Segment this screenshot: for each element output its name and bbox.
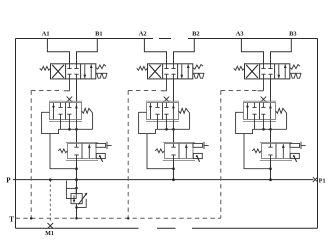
node T: tank return line (dashed)	[16, 217, 219, 219]
wire: top work-port rail	[16, 38, 154, 40]
svg-text:B2: B2	[192, 30, 199, 37]
wire: V12 lower interconnect	[61, 120, 77, 130]
valve V32 right cell flow arrow	[269, 103, 271, 119]
wire: feed line V21 to V22	[173, 79, 175, 103]
spring left of valve V33	[252, 149, 261, 153]
valve V23 right cell flow arrow	[185, 144, 187, 158]
wire: dashed section top edge 2	[128, 90, 159, 92]
wire: V11 A-side stub to section boundary	[64, 79, 70, 91]
pilot line left of valve V12	[42, 112, 59, 133]
junction relief outlet	[75, 206, 78, 209]
valve V22 left cell blocked ports	[155, 103, 159, 108]
valve V33 left cell blocked ports	[268, 144, 272, 148]
relief valve RV1 drain loop	[77, 199, 87, 208]
wire: feed line V12 to V13	[76, 129, 78, 143]
junction below V12 left	[68, 128, 71, 131]
junction relief inlet	[75, 187, 78, 190]
arrow into drain block V23	[197, 155, 200, 161]
compensator valve V12 body	[49, 100, 82, 102]
valve V13 left cell blocked ports	[74, 144, 78, 148]
drain port block right of V33	[290, 153, 299, 158]
wire: B2 drop to valve V21	[174, 39, 195, 64]
wire: B3 drop to valve V31	[271, 39, 292, 64]
wire: feed line V33 to P rail	[270, 159, 272, 180]
wire: dashed section top edge 3	[221, 90, 257, 92]
junction feed on P line	[269, 178, 272, 181]
valve V31 right position flow arrows	[278, 64, 280, 78]
valve V12 right cell flow arrow	[75, 103, 77, 119]
plugged pilot port x on valve V12	[67, 97, 73, 102]
svg-text:A2: A2	[139, 30, 147, 37]
plugged pilot port x on valve V32	[261, 97, 267, 102]
svg-text:M1: M1	[45, 231, 54, 237]
arrow into drain block V13	[100, 155, 103, 161]
valve V22 left cell check arrow	[150, 103, 152, 119]
directional valve V21 body	[148, 64, 193, 79]
spring right of valve V12	[82, 108, 91, 113]
svg-text:P: P	[6, 176, 11, 184]
valve V11 left position crossed arrows	[52, 65, 64, 78]
detent on valve V11	[96, 72, 108, 74]
junction relief on T line	[75, 217, 78, 220]
node P1: port marker x	[313, 177, 318, 182]
detent on valve V31	[290, 72, 302, 74]
valve V31 left position crossed arrows	[246, 65, 258, 78]
wire: V22 lower interconnect	[158, 120, 174, 130]
valve V22 right cell flow arrow	[172, 103, 174, 119]
wire: bottom border line	[16, 227, 139, 229]
svg-text:A3: A3	[236, 30, 244, 37]
wire: B1 drop to valve V11	[77, 39, 98, 64]
relief valve RV1 inlet from P	[76, 180, 78, 194]
wire: V21 A-side stub to section boundary	[161, 79, 167, 91]
spring left of valve V13	[58, 149, 67, 153]
valve V12 left cell check arrow	[53, 103, 55, 119]
wire: A3 drop to valve V31	[241, 39, 263, 64]
pilot loop to feed line below	[244, 134, 271, 169]
wire: V31 A-side stub to section boundary	[258, 79, 264, 91]
junction feed/pilot loop	[172, 167, 175, 170]
wire: dashed section top edge 1	[31, 90, 62, 92]
junction below V32 right	[269, 128, 272, 131]
wire: feed line V31 to V32	[270, 79, 272, 103]
wire: right border line	[317, 39, 319, 229]
relief valve RV1 pilot line to P	[65, 181, 67, 189]
spring right of valve V31	[290, 65, 300, 70]
relief valve RV1 adjustment arrow	[78, 193, 87, 204]
valve V33 right cell flow arrow	[282, 144, 284, 158]
directional valve V11 body	[51, 64, 96, 79]
junction below V12 right	[75, 128, 78, 131]
junction feed/pilot loop	[75, 167, 78, 170]
pilot line left of valve V22	[139, 112, 156, 133]
wire: A2 drop to valve V21	[144, 39, 166, 64]
valve V21 centre position blocked ports	[164, 64, 168, 69]
node M1: gauge port marker x	[48, 223, 54, 229]
svg-text:B3: B3	[289, 30, 296, 37]
pilot loop to feed line below	[50, 134, 77, 169]
valve V31 centre position blocked ports	[261, 64, 265, 69]
valve V32 left cell blocked ports	[252, 103, 256, 108]
svg-text:T: T	[9, 216, 14, 224]
spring right of valve V32	[276, 108, 285, 113]
plugged pilot port x on valve V22	[164, 97, 170, 102]
pilot port block right of V23	[193, 143, 203, 147]
valve V23 left cell blocked ports	[171, 144, 175, 148]
spring right of valve V22	[179, 108, 188, 113]
drain port block right of V23	[193, 153, 202, 158]
compensator valve V32 body	[243, 100, 276, 102]
spring right of valve V21	[193, 65, 203, 70]
wire: feed line V11 to V12	[76, 79, 78, 103]
valve V11 centre position blocked ports	[67, 64, 71, 69]
wire: feed line V23 to P rail	[173, 159, 175, 180]
svg-text:B1: B1	[95, 30, 102, 37]
wire: dashed section boundary vertical 1	[30, 91, 32, 219]
relief valve RV1 internal arrow	[73, 195, 75, 202]
svg-text:A1: A1	[42, 30, 50, 37]
arrow into drain block V33	[294, 155, 297, 161]
valve V13 right cell flow arrow	[88, 144, 90, 158]
junction feed on P line	[172, 178, 175, 181]
drain port block right of V13	[96, 153, 105, 158]
junction feed/pilot loop	[269, 167, 272, 170]
relief valve RV1 pilot square	[66, 188, 76, 198]
valve V11 right position flow arrows	[84, 64, 86, 78]
wire: feed line V32 to V33	[270, 129, 272, 143]
directional valve V31 body	[245, 64, 290, 79]
junction below V22 left	[165, 128, 168, 131]
junction feed on P line	[75, 178, 78, 181]
spring left of valve V21	[137, 66, 148, 70]
junction P line / gauge line	[49, 178, 52, 181]
valve V22 right cell blocked ports	[164, 103, 168, 108]
valve V21 left position crossed arrows	[149, 65, 161, 78]
compensator valve V22 body	[146, 100, 179, 102]
pilot line left of valve V32	[236, 112, 253, 133]
valve V32 right cell blocked ports	[261, 103, 265, 108]
relief valve RV1 outlet to T	[76, 204, 78, 219]
detent on valve V21	[193, 72, 205, 74]
pilot port block right of V33	[290, 143, 300, 147]
wire: dashed section boundary, right riser to T	[218, 91, 221, 219]
wire: dashed gauge line P to M1	[49, 180, 51, 223]
compensator valve V33 body	[260, 141, 292, 143]
spring left of valve V31	[234, 66, 245, 70]
wire: A1 drop to valve V11	[47, 39, 69, 64]
valve V12 left cell blocked ports	[58, 103, 62, 108]
wire: dashed section boundary vertical 2	[127, 91, 129, 219]
pilot port block right of V13	[96, 143, 106, 147]
spring left of valve V11	[40, 66, 51, 70]
valve V32 left cell check arrow	[247, 103, 249, 119]
compensator valve V13 body	[66, 141, 98, 143]
valve V12 right cell blocked ports	[67, 103, 71, 108]
pilot loop to feed line below	[147, 134, 174, 169]
wire: feed line V22 to V23	[173, 129, 175, 143]
junction on T line at second boundary	[127, 217, 130, 220]
wire: left border line	[15, 39, 17, 229]
wire: V32 lower interconnect	[255, 120, 271, 130]
node P: pressure supply line	[13, 179, 313, 181]
relief valve RV1 main square	[71, 194, 82, 204]
spring left of valve V23	[155, 149, 164, 153]
junction on T line at left boundary	[30, 217, 33, 220]
junction below V32 left	[262, 128, 265, 131]
svg-text:P1: P1	[319, 179, 326, 185]
valve V21 right position flow arrows	[181, 64, 183, 78]
spring right of valve V11	[96, 65, 106, 70]
junction below V22 right	[172, 128, 175, 131]
compensator valve V23 body	[163, 141, 195, 143]
wire: feed line V13 to P rail	[76, 159, 78, 180]
